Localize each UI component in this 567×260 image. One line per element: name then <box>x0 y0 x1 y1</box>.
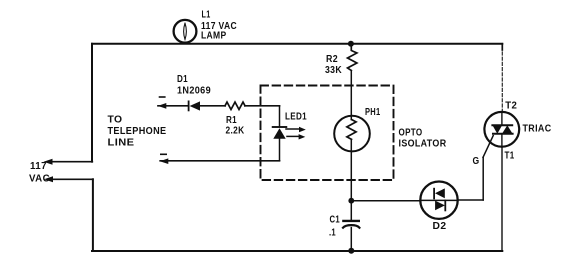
svg-text:33K: 33K <box>325 65 342 76</box>
node: junction C1 / D2 branch <box>348 198 354 204</box>
wire: R2 to PH1 <box>350 71 352 120</box>
svg-text:T1: T1 <box>505 151 515 162</box>
svg-text:VAC: VAC <box>29 173 50 184</box>
wire: T2 lead inside circle <box>501 112 503 125</box>
wire: upper telephone-line lead <box>158 105 189 107</box>
node: junction of C1 branch with bottom rail <box>348 248 354 254</box>
opto isolator dashed box <box>261 86 394 181</box>
wire: lower telephone-line lead into box to LED cathode <box>160 160 279 162</box>
resistor R2 <box>348 44 357 71</box>
wire: right vertical from triac T1 down to bottom rail <box>501 147 503 251</box>
svg-text:R1: R1 <box>226 115 237 126</box>
svg-text:R2: R2 <box>326 54 338 65</box>
diode D1 <box>188 101 190 110</box>
node: upper telephone arrow terminal <box>158 103 167 109</box>
svg-text:G: G <box>473 156 480 167</box>
svg-text:.1: .1 <box>329 227 336 238</box>
wire: junction to diac D2 <box>351 200 420 202</box>
resistor R1 <box>225 102 245 109</box>
node: lower 117 VAC arrow terminal <box>44 176 53 182</box>
wire: bottom rail <box>92 250 502 252</box>
wire: C1 to bottom rail <box>350 228 352 251</box>
wire: T1 lead inside circle <box>501 134 503 147</box>
node: upper 117 VAC arrow terminal <box>44 159 53 165</box>
LED emission arrow lower <box>287 135 299 137</box>
wire: D2 to triac gate riser <box>458 199 484 201</box>
svg-text:LINE: LINE <box>108 138 135 149</box>
wire: D1 to R1 <box>200 105 225 107</box>
svg-text:D2: D2 <box>433 221 447 232</box>
wire: R1 into opto box to LED anode corner <box>245 105 280 107</box>
wire: left vertical upper segment <box>91 44 93 162</box>
LED emission arrow upper <box>286 128 300 130</box>
svg-text:PH1: PH1 <box>365 107 381 118</box>
node: lower telephone arrow terminal <box>160 158 169 164</box>
svg-text:OPTO: OPTO <box>399 128 423 139</box>
diac D2 <box>420 182 457 219</box>
wire: gate riser vertical <box>482 157 484 200</box>
wire: right vertical from top rail down to triac T2 <box>501 44 503 50</box>
svg-text:117: 117 <box>30 161 47 172</box>
svg-text:T2: T2 <box>505 101 517 112</box>
svg-text:D1: D1 <box>177 74 188 85</box>
svg-text:TO: TO <box>108 115 123 126</box>
svg-text:LED1: LED1 <box>285 112 307 123</box>
wire: lower 117 VAC terminal lead <box>51 178 93 180</box>
svg-text:TRIAC: TRIAC <box>523 124 552 135</box>
node: junction of R2 branch with top rail <box>348 41 354 47</box>
svg-text:TELEPHONE: TELEPHONE <box>108 126 167 137</box>
svg-text:L1: L1 <box>202 10 211 21</box>
wire: left vertical lower segment <box>92 179 94 251</box>
wire: upper 117 VAC terminal lead <box>50 161 92 163</box>
polarity tick above upper arrow <box>160 96 165 98</box>
photocell PH1 <box>334 116 370 152</box>
lamp L1 <box>174 20 197 43</box>
svg-text:LAMP: LAMP <box>201 30 227 41</box>
svg-text:C1: C1 <box>330 214 341 225</box>
capacitor C1 <box>350 201 352 220</box>
svg-text:2.2K: 2.2K <box>226 126 245 137</box>
wire: PH1 to lower junction <box>350 139 352 200</box>
polarity tick above lower arrow <box>161 153 166 155</box>
svg-text:1N2069: 1N2069 <box>177 86 211 97</box>
wire: top rail from left corner to right corner <box>92 43 502 45</box>
wire: gate diagonal into triac <box>483 136 493 158</box>
svg-text:ISOLATOR: ISOLATOR <box>399 138 447 149</box>
triac T2 <box>484 112 519 147</box>
LED LED1 <box>279 106 281 127</box>
